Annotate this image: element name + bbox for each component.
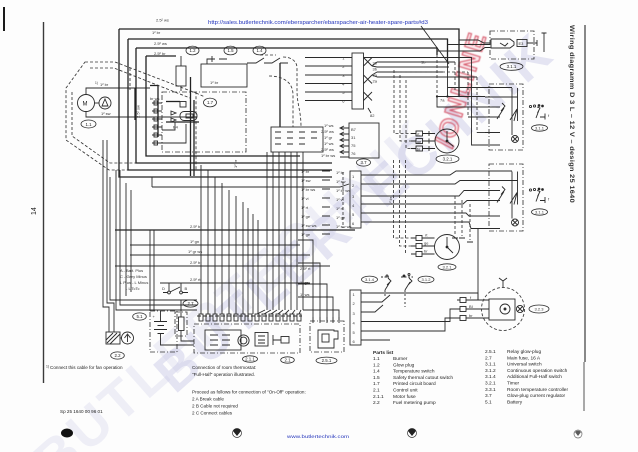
- svg-text:2: 2: [353, 301, 356, 306]
- svg-text:A - Batt. Plus: A - Batt. Plus: [120, 268, 143, 273]
- svg-text:Battery: Battery: [507, 399, 523, 405]
- svg-text:Universal switch: Universal switch: [507, 362, 542, 368]
- svg-text:4: 4: [353, 321, 356, 326]
- svg-text:3.2.1: 3.2.1: [443, 157, 453, 162]
- svg-text:2.5.1: 2.5.1: [322, 358, 332, 363]
- svg-text:1² sw ws: 1² sw ws: [301, 223, 317, 228]
- svg-text:2.5.1: 2.5.1: [485, 349, 496, 355]
- svg-text:5: 5: [353, 330, 356, 335]
- svg-text:1.7: 1.7: [207, 100, 214, 105]
- svg-text:2.5² ws: 2.5² ws: [154, 41, 167, 46]
- svg-text:1² gr ws: 1² gr ws: [188, 249, 202, 254]
- svg-text:1² rt: 1² rt: [336, 206, 344, 211]
- svg-text:L Plus - L Minus: L Plus - L Minus: [120, 280, 148, 285]
- svg-text:2.5² ws: 2.5² ws: [321, 147, 334, 152]
- svg-text:2 A Break cable: 2 A Break cable: [192, 397, 224, 402]
- svg-text:+: +: [153, 314, 156, 319]
- svg-text:E3: E3: [519, 41, 525, 46]
- svg-text:Parts list: Parts list: [373, 350, 394, 356]
- svg-text:1² sw: 1² sw: [101, 111, 111, 116]
- svg-text:1² br: 1² br: [388, 196, 393, 205]
- svg-text:1² ge: 1² ge: [301, 232, 311, 237]
- svg-text:2.5² ws: 2.5² ws: [156, 18, 169, 23]
- svg-text:1² sw: 1² sw: [301, 178, 311, 183]
- svg-text:3.3.1: 3.3.1: [485, 387, 496, 393]
- svg-text:Continuous operation switch: Continuous operation switch: [507, 368, 568, 374]
- svg-text:2 C Connect cables: 2 C Connect cables: [192, 411, 233, 416]
- svg-text:3.7: 3.7: [485, 393, 492, 399]
- svg-text:2.2: 2.2: [373, 400, 380, 406]
- svg-text:1.4: 1.4: [256, 48, 263, 53]
- svg-text:3.2.1: 3.2.1: [443, 265, 453, 270]
- svg-text:5.1: 5.1: [136, 314, 143, 319]
- svg-text:ge: ge: [424, 241, 429, 246]
- svg-text:2.5² rt: 2.5² rt: [300, 266, 311, 271]
- svg-text:1² vi: 1² vi: [336, 197, 344, 202]
- svg-text:1² br: 1² br: [100, 82, 109, 87]
- svg-text:1² br: 1² br: [210, 80, 219, 85]
- svg-text:Control unit: Control unit: [393, 388, 418, 394]
- svg-text:2.1.1: 2.1.1: [245, 357, 255, 362]
- svg-text:Temperature switch: Temperature switch: [393, 369, 435, 375]
- svg-text:1² br ws: 1² br ws: [301, 187, 315, 192]
- svg-text:3.1.1: 3.1.1: [535, 126, 545, 131]
- svg-text:4: 4: [342, 82, 345, 87]
- svg-text:2.7: 2.7: [485, 355, 492, 361]
- svg-text:2.5² ws: 2.5² ws: [321, 129, 334, 134]
- svg-text:2b: 2b: [373, 61, 378, 66]
- svg-text:1² ws: 1² ws: [324, 123, 334, 128]
- svg-text:3a: 3a: [373, 73, 378, 78]
- svg-text:D: D: [162, 286, 165, 291]
- svg-text:1² rt: 1² rt: [301, 205, 309, 210]
- svg-text:1.5: 1.5: [373, 375, 380, 381]
- svg-text:br ws: br ws: [150, 96, 160, 101]
- svg-text:br: br: [469, 313, 473, 318]
- svg-text:Sp 25 1640 00 96 01: Sp 25 1640 00 96 01: [60, 409, 103, 414]
- svg-text:75: 75: [351, 143, 356, 148]
- svg-text:Safety thermal cutout switch: Safety thermal cutout switch: [393, 375, 453, 381]
- svg-text:3: 3: [353, 311, 356, 316]
- svg-text:2.2: 2.2: [114, 353, 121, 358]
- svg-text:2.5² br: 2.5² br: [154, 51, 166, 56]
- svg-text:31: 31: [351, 135, 356, 140]
- svg-text:Printed circuit board: Printed circuit board: [393, 381, 436, 387]
- svg-text:M: M: [83, 102, 88, 108]
- svg-text:2: 2: [342, 64, 345, 69]
- svg-text:1² br: 1² br: [152, 30, 161, 35]
- svg-text:- L TcTc: - L TcTc: [126, 286, 140, 291]
- svg-text:f: f: [548, 197, 550, 202]
- svg-text:3: 3: [342, 73, 345, 78]
- svg-text:1.4: 1.4: [373, 369, 380, 375]
- svg-text:3.1.2: 3.1.2: [422, 277, 432, 282]
- svg-text:1² br ws: 1² br ws: [321, 153, 335, 158]
- svg-text:Glow-plug current regulator: Glow-plug current regulator: [507, 393, 566, 399]
- svg-text:5: 5: [342, 90, 345, 95]
- svg-text:2.5² sw: 2.5² sw: [136, 105, 141, 118]
- svg-text:B4: B4: [173, 125, 179, 130]
- svg-text:C - Grey Minus: C - Grey Minus: [120, 274, 147, 279]
- svg-text:1² ws: 1² ws: [300, 292, 310, 297]
- svg-text:1)Connect this cable for fan o: 1)Connect this cable for fan operation: [46, 365, 123, 371]
- svg-text:1.2: 1.2: [189, 48, 196, 53]
- svg-text:1: 1: [342, 56, 345, 61]
- svg-text:3.1.1: 3.1.1: [485, 362, 496, 368]
- svg-text:2.5² br: 2.5² br: [190, 224, 202, 229]
- svg-text:1² ws: 1² ws: [324, 141, 334, 146]
- svg-text:2.1: 2.1: [284, 358, 291, 363]
- svg-text:Connection of room thermostat:: Connection of room thermostat:: [192, 365, 256, 370]
- svg-text:1² br: 1² br: [301, 169, 310, 174]
- svg-text:5.1: 5.1: [485, 399, 492, 405]
- svg-text:1: 1: [353, 292, 356, 297]
- svg-text:1² gn: 1² gn: [190, 239, 199, 244]
- svg-text:1² br: 1² br: [233, 159, 238, 168]
- svg-text:Proceed as follows for connect: Proceed as follows for connection of "On…: [192, 390, 306, 395]
- svg-text:2.5² br: 2.5² br: [190, 260, 202, 265]
- svg-text:1² sw: 1² sw: [336, 179, 346, 184]
- svg-text:3.1.4: 3.1.4: [485, 374, 496, 380]
- svg-text:Fuel metering pump: Fuel metering pump: [393, 400, 436, 406]
- svg-text:3.2.1: 3.2.1: [485, 381, 496, 387]
- svg-text:3.7: 3.7: [360, 160, 367, 165]
- svg-text:3.2.3: 3.2.3: [535, 307, 545, 312]
- svg-text:76: 76: [351, 151, 356, 156]
- svg-text:1² br: 1² br: [336, 170, 345, 175]
- svg-text:1.1: 1.1: [85, 122, 92, 127]
- svg-text:6: 6: [353, 339, 356, 344]
- svg-text:www.butlertechnik.com: www.butlertechnik.com: [287, 434, 349, 440]
- svg-text:1.5: 1.5: [227, 48, 234, 53]
- svg-text:6: 6: [342, 99, 345, 104]
- svg-text:Glow plug: Glow plug: [393, 362, 415, 368]
- svg-text:3.1.1: 3.1.1: [535, 210, 545, 215]
- svg-text:Main fuse, 16 A: Main fuse, 16 A: [507, 355, 541, 361]
- svg-text:f: f: [470, 295, 472, 300]
- svg-text:1.7: 1.7: [373, 381, 380, 387]
- svg-text:ge: ge: [417, 139, 422, 144]
- svg-text:1.1: 1.1: [373, 356, 380, 362]
- svg-text:1² gr: 1² gr: [324, 135, 333, 140]
- svg-text:Wiring diagramm D 3 L – 12 V: Wiring diagramm D 3 L – 12 V – design 25…: [568, 25, 575, 203]
- svg-text:Burner: Burner: [393, 356, 408, 362]
- svg-text:BI: BI: [469, 304, 473, 309]
- svg-text:7a: 7a: [440, 98, 445, 103]
- svg-text:14: 14: [31, 207, 38, 215]
- svg-text:1² sw ws: 1² sw ws: [336, 224, 352, 229]
- svg-text:2.5² rt: 2.5² rt: [190, 277, 201, 282]
- svg-text:2.1.1: 2.1.1: [373, 394, 384, 400]
- svg-text:br: br: [424, 249, 428, 254]
- svg-text:1² ge: 1² ge: [301, 214, 311, 219]
- svg-text:Motor fuse: Motor fuse: [393, 394, 416, 400]
- svg-text:Relay glow-plug: Relay glow-plug: [507, 349, 541, 355]
- svg-text:rt: rt: [425, 233, 428, 238]
- svg-text:http://sales.butlertechnik.com: http://sales.butlertechnik.com/ebersparc…: [208, 20, 428, 26]
- svg-text:1.2: 1.2: [373, 362, 380, 368]
- svg-text:82: 82: [370, 113, 375, 118]
- svg-text:2.1: 2.1: [373, 388, 380, 394]
- svg-text:"Full-Half" operation illustra: "Full-Half" operation illustrated.: [192, 372, 255, 377]
- svg-text:2a: 2a: [373, 79, 378, 84]
- svg-text:3b: 3b: [373, 67, 378, 72]
- svg-text:B: B: [185, 286, 188, 291]
- svg-text:BUTLERTECHNIK: BUTLERTECHNIK: [23, 107, 445, 452]
- svg-text:Additional Full-Half switch: Additional Full-Half switch: [507, 374, 562, 380]
- svg-text:2.7: 2.7: [187, 301, 194, 306]
- svg-text:f: f: [548, 113, 550, 118]
- svg-text:1² vi: 1² vi: [301, 196, 309, 201]
- svg-text:Room temperature controller: Room temperature controller: [507, 387, 568, 393]
- svg-text:3.1.4: 3.1.4: [365, 277, 375, 282]
- svg-text:1): 1): [95, 81, 98, 85]
- svg-text:3.1.1: 3.1.1: [507, 64, 517, 69]
- svg-text:2 B Cable not required: 2 B Cable not required: [192, 404, 238, 409]
- svg-text:1² br ws: 1² br ws: [336, 188, 350, 193]
- svg-text:Timer: Timer: [507, 381, 519, 387]
- svg-text:1² ge: 1² ge: [336, 215, 346, 220]
- svg-text:3.1.2: 3.1.2: [485, 368, 496, 374]
- svg-text:B7: B7: [351, 127, 357, 132]
